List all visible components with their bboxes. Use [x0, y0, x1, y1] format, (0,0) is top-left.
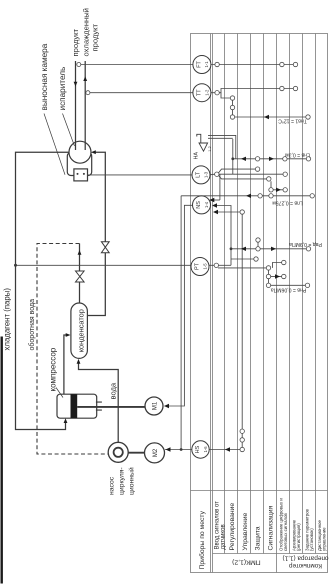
level chamber box	[74, 169, 88, 181]
wire: TT branch to display/archive	[219, 89, 293, 93]
wire: regulator node link	[232, 100, 234, 115]
arrow: discharge into condenser top	[66, 333, 71, 337]
node: FT display	[280, 62, 284, 66]
wire: Рнв setpoint column	[271, 284, 306, 286]
svg-text:LT: LT	[196, 171, 202, 178]
water valve V2	[76, 271, 85, 282]
EQUIPMENT LABELS	[3, 8, 136, 495]
wire: Сигнализация row pressure nodes	[268, 279, 270, 283]
wire: Рвд circle pair link	[257, 242, 259, 246]
sheet edge mark	[1, 337, 3, 584]
wire: LT column down to display	[219, 173, 283, 175]
pump (насос циркуляционный)	[108, 442, 128, 462]
svg-text:NS: NS	[196, 201, 202, 209]
arrow: liquid into evaporator bottom	[91, 150, 96, 154]
arrow: up into M1	[164, 404, 169, 408]
svg-text:оборотная вода: оборотная вода	[28, 299, 36, 351]
node: Lнв display	[283, 157, 287, 161]
instrument FT 1-1	[193, 56, 211, 74]
table double line under row 1	[210, 34, 212, 573]
wire: PT down to regulator row	[219, 264, 232, 266]
wire: HS column M2-HS-Управление	[165, 449, 240, 451]
node: Lпв Защита	[258, 194, 262, 198]
svg-text:Защита: Защита	[255, 526, 262, 550]
svg-text:испаритель: испаритель	[58, 67, 67, 111]
svg-text:охлажденный: охлажденный	[82, 8, 91, 56]
node: LT alarm	[269, 188, 273, 192]
PROCESS EQUIPMENT	[16, 152, 119, 442]
svg-text:1-4: 1-4	[204, 201, 209, 208]
motor M1	[145, 397, 163, 415]
node: TT display	[280, 86, 284, 90]
wire: LT branch to NS trip line	[219, 174, 221, 200]
svg-text:Lнв = 0,3м: Lнв = 0,3м	[285, 151, 310, 157]
small node circles	[77, 62, 315, 451]
node: HS branch	[180, 448, 183, 451]
node: PT display	[282, 260, 286, 264]
node: Защита level pair B	[255, 167, 259, 171]
arrow: down on Рвд line	[271, 247, 276, 251]
svg-text:1-1: 1-1	[204, 61, 209, 68]
arrow: up into NS bottom (protection)	[209, 198, 214, 202]
table row lines	[224, 34, 226, 554]
SIGNAL NETWORK	[16, 65, 311, 450]
svg-text:оператора (1,1): оператора (1,1)	[283, 555, 329, 562]
level chamber dots	[77, 173, 79, 175]
wire: discharge pipe compressor to condenser top	[64, 335, 67, 394]
arrow: water to return junction	[78, 250, 82, 255]
alarm horn HA 1-2	[197, 134, 208, 151]
arrow: suction into compressor	[64, 418, 68, 423]
wire: level protection column X=424.7	[233, 158, 306, 160]
node: FT pipe tap	[77, 63, 81, 67]
svg-text:1-2: 1-2	[208, 146, 212, 152]
wire: NS regulator input	[215, 206, 231, 266]
leader line: компрессор	[56, 388, 63, 398]
product pipe out (охлажденный продукт)	[84, 61, 86, 150]
svg-text:FT: FT	[197, 61, 203, 68]
svg-text:Рвд = 0,9МПа: Рвд = 0,9МПа	[289, 241, 322, 247]
svg-text:1-2: 1-2	[205, 89, 210, 96]
arrow: down on Lнв line to display	[269, 157, 274, 161]
arrow: up on Lнв line	[241, 157, 246, 161]
arrow: water into condenser left	[77, 359, 81, 364]
instrument TT 1-2	[193, 84, 211, 102]
svg-text:1-3: 1-3	[204, 171, 209, 178]
wire: HA horn drop lines	[208, 135, 236, 158]
svg-text:Рнв = 0,06МПа: Рнв = 0,06МПа	[271, 287, 307, 293]
svg-text:вода: вода	[108, 382, 117, 399]
motor M2	[145, 443, 165, 463]
node: Управление node c	[240, 429, 244, 433]
SETPOINT TEXTS (rotated)	[271, 118, 322, 293]
svg-text:управление: управление	[321, 527, 326, 551]
wire: PT process tap line	[16, 264, 193, 266]
node: Рнв alarm b	[266, 274, 270, 278]
wire: suction pipe (хладагент пары) evaporator top to compressor inlet	[16, 152, 70, 429]
wire: LT alarm to display	[269, 189, 283, 191]
svg-text:ционный: ционный	[128, 467, 136, 495]
svg-text:1-6: 1-6	[203, 446, 208, 453]
svg-text:датчиков: датчиков	[220, 524, 226, 549]
svg-text:Lпв = 0,275м: Lпв = 0,275м	[272, 200, 303, 206]
wire: protection column X=387.7 (Lпв)	[181, 195, 310, 197]
svg-text:HA: HA	[194, 152, 200, 160]
wire: FT to input row and display/archive	[210, 64, 293, 66]
svg-text:выносная камера: выносная камера	[40, 43, 49, 110]
signal arrows	[164, 115, 281, 452]
arrow: up on Lпв line	[246, 194, 251, 198]
arrow: down LT alarm to display	[276, 188, 281, 192]
svg-text:TT: TT	[197, 89, 203, 96]
svg-text:циркуля-: циркуля-	[119, 467, 126, 495]
node: regulator mid	[230, 105, 234, 109]
node: TT input row	[215, 91, 219, 95]
node: Рвд setpoint source	[306, 247, 310, 251]
wire: pressure alarm to display	[271, 276, 282, 278]
product pipe in (продукт)	[75, 61, 77, 150]
wire: water supply pump to condenser left end	[79, 363, 119, 443]
svg-text:Тнв1 = 12°С: Тнв1 = 12°С	[278, 118, 307, 124]
compressor black band	[71, 394, 78, 418]
wire: LT fan to Сигнализация	[219, 176, 267, 179]
arrow: up into NS bottom (control)	[213, 210, 218, 214]
svg-text:Приборы по месту: Приборы по месту	[198, 510, 206, 569]
arrow: up on Рвд line	[241, 247, 246, 251]
instrument NS 1-4	[193, 196, 211, 214]
wire: NS control input from Управление row	[215, 211, 240, 213]
expansion valve V1	[101, 242, 109, 253]
svg-text:Компьютер: Компьютер	[289, 562, 323, 569]
svg-text:конденсатор: конденсатор	[77, 309, 86, 352]
svg-text:M2: M2	[153, 448, 159, 457]
node: regulator TT input	[230, 96, 234, 100]
wire: PT to input row node	[208, 264, 214, 266]
svg-text:насос: насос	[109, 476, 116, 495]
node: Lнв setpoint source	[306, 157, 310, 161]
node: Управление NS node	[240, 210, 244, 214]
node: Рнв alarm c	[266, 283, 270, 287]
node: FT archive	[293, 62, 297, 66]
node: Рнв display	[282, 274, 286, 278]
node: TT archive	[293, 86, 297, 90]
wire: Рвд protection column	[231, 248, 306, 250]
node: Lпв Сигнализация	[269, 194, 273, 198]
table label/content divider	[191, 490, 328, 492]
node: regulator setpoint	[230, 115, 234, 119]
instrument HS 1-6	[192, 441, 209, 458]
condenser (конденсатор)	[71, 303, 88, 358]
svg-text:(установок): (установок)	[309, 528, 314, 551]
instrument LT 1-3	[192, 166, 210, 184]
TABLE GRID	[191, 34, 328, 573]
wire: Управление row HS to NS	[241, 214, 243, 447]
wire: setpoint Тнв1 line to regulator	[235, 116, 306, 118]
arrow: down pressure alarm to display	[275, 274, 280, 278]
wire: water outlet condenser right end to valve to water return junction	[79, 244, 81, 304]
svg-text:PT: PT	[195, 262, 201, 270]
node: LT input row	[215, 172, 219, 176]
wire: M1 control line from NS	[165, 205, 193, 406]
arrow: out of evaporator (охлажденный продукт)	[83, 76, 87, 81]
svg-text:M1: M1	[153, 401, 159, 410]
node: PT Защита trip	[254, 257, 258, 261]
wire: TT branch to regulator	[221, 93, 230, 98]
TABLE LABELS	[198, 498, 329, 570]
node: TT pipe tap	[86, 91, 90, 95]
evaporator U1 (испаритель)	[69, 141, 91, 163]
arrow: up toward M2 on HS line	[225, 447, 230, 451]
INSTRUMENTS	[191, 56, 211, 459]
node: Управление HS node	[240, 447, 244, 451]
node: LT alarm display	[283, 188, 287, 192]
wire: dashed return water line (оборотная вода)	[37, 244, 108, 455]
wire: NS protection arrow stub	[214, 199, 220, 201]
wire: LT fan to Защита	[219, 169, 256, 173]
node: Рнв setpoint source	[305, 283, 309, 287]
svg-text:Сигнализация: Сигнализация	[268, 505, 275, 550]
instrument PT 1-5	[191, 258, 209, 276]
node: LT Сигнализация	[267, 177, 271, 181]
svg-text:(регистрация): (регистрация)	[296, 523, 301, 551]
svg-text:ПМК(1,2): ПМК(1,2)	[232, 559, 260, 566]
wire: LT process tap line	[88, 174, 193, 176]
wire: FT process tap line	[81, 64, 194, 66]
node: Тнв1 setpoint source	[306, 115, 310, 119]
wire: PT trip branch	[231, 258, 254, 260]
arrow: up into NS bottom (regulator)	[212, 203, 217, 207]
piston rod to M1	[77, 406, 145, 408]
node: Рнв alarm a	[266, 266, 270, 270]
table group column line	[213, 553, 328, 555]
compressor rod gland notch	[96, 402, 102, 410]
evaporator external chamber bracket (выносная камера)	[67, 153, 91, 176]
svg-text:Регулирование: Регулирование	[229, 503, 236, 551]
svg-text:продукт: продукт	[90, 23, 99, 51]
compressor body	[57, 394, 97, 418]
table outer border	[191, 34, 328, 573]
wire: PT alarm branch	[218, 268, 269, 274]
node: PT tap on suction line	[14, 264, 17, 267]
node: LT display	[283, 172, 287, 176]
node: FT input row	[215, 62, 219, 66]
leader line: испаритель	[63, 114, 75, 147]
wire: TT process tap line	[90, 92, 194, 94]
svg-text:хладагент (пары): хладагент (пары)	[3, 288, 12, 351]
node: Защита level pair A	[255, 157, 259, 161]
arrow: up on Тнв1 setpoint line	[264, 115, 269, 119]
node: level line junction	[231, 157, 234, 160]
wire: PT display link	[273, 263, 282, 268]
wire: liquid line condenser bottom - expansion valve - evaporator bottom	[87, 152, 105, 315]
wire: LT to input row node	[209, 173, 214, 176]
wire: LT branch level alarm row	[232, 139, 234, 174]
wire: TT to input row node	[210, 92, 215, 94]
node: PT input row	[214, 263, 218, 267]
node: Управление node b	[240, 438, 244, 442]
svg-text:компрессор: компрессор	[49, 347, 58, 391]
svg-text:Управление: Управление	[242, 512, 249, 550]
svg-text:продукт: продукт	[71, 28, 80, 56]
node: Lпв setpoint source	[310, 194, 314, 198]
node: Рвд Защита pair b	[256, 238, 260, 242]
flow arrows	[64, 76, 96, 423]
pump to M2 link	[128, 452, 144, 454]
svg-text:1-5: 1-5	[203, 263, 208, 270]
wire: Сигнализация link LT pair	[270, 181, 272, 187]
svg-text:HS: HS	[195, 445, 201, 453]
svg-text:световых сигналов: световых сигналов	[283, 513, 288, 551]
node: Рвд junction	[230, 247, 233, 250]
node: Рвд Защита pair a	[256, 247, 260, 251]
wire: branch line HS to protection column	[180, 196, 182, 450]
leader line: выносная камера	[44, 114, 65, 175]
arrow: into evaporator (продукт)	[74, 82, 78, 87]
arrow: up into M2	[166, 447, 171, 451]
